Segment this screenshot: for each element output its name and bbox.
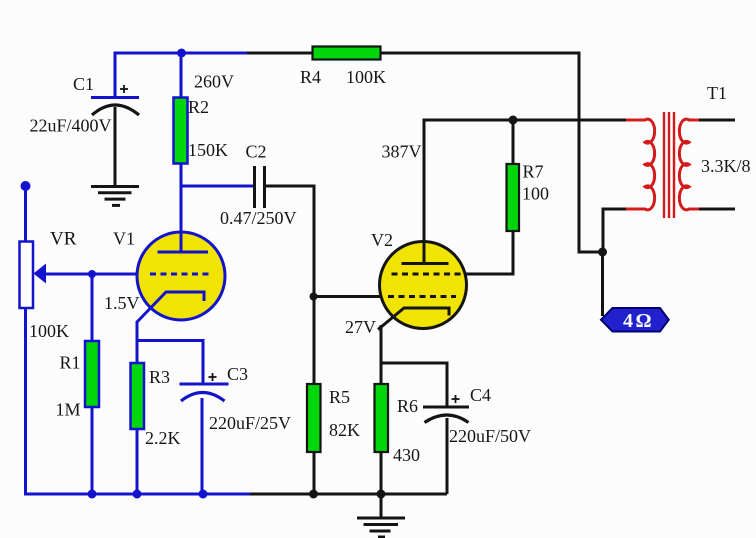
label C3 — [227, 364, 248, 384]
speaker badge hexagon — [601, 308, 669, 332]
svg-text:3.3K/8: 3.3K/8 — [701, 156, 751, 176]
node junction dot grid/R1 — [88, 270, 96, 278]
wire junction to speaker — [601, 252, 604, 316]
label 150K — [188, 140, 228, 160]
V2 plate lead and wire to transformer — [424, 120, 626, 263]
wire cathode branch to C4 — [381, 363, 447, 408]
svg-text:100K: 100K — [29, 321, 69, 341]
svg-text:C1: C1 — [73, 74, 94, 94]
node dot R3/bus — [133, 490, 142, 499]
ground below C1 — [91, 187, 139, 206]
capacitor C4 bottom plate arc — [425, 415, 469, 423]
label V2 — [371, 230, 393, 250]
wire top B+ blue segment — [115, 53, 249, 96]
bottom bus blue segment — [24, 493, 252, 496]
V1 plate — [158, 251, 209, 254]
svg-text:VR: VR — [50, 229, 77, 250]
wire wiper to V1 grid — [44, 273, 139, 276]
resistor R1 — [85, 341, 99, 407]
svg-text:R3: R3 — [149, 367, 170, 387]
capacitor C3 plus sign — [209, 373, 217, 381]
V2 cathode — [378, 308, 449, 330]
wire cathode branch to C3 — [137, 341, 203, 386]
wire R5 column — [313, 297, 316, 495]
label 0.47/250V — [220, 208, 297, 228]
svg-text:R7: R7 — [523, 162, 544, 182]
resistor R2 — [174, 98, 188, 164]
label 100K of VR — [29, 321, 69, 341]
wire primary bottom to junction — [603, 209, 626, 252]
wire R3 bottom — [136, 428, 139, 494]
label C2 — [246, 142, 267, 162]
wire secondary top — [699, 119, 735, 122]
svg-text:27V: 27V — [345, 317, 376, 337]
wire C4 to bus — [446, 418, 449, 494]
label 2.2K — [145, 428, 181, 448]
label 220uF/25V — [209, 413, 291, 433]
label 220uF/50V — [449, 426, 531, 446]
wire junction to V2 grid1 — [314, 295, 384, 298]
wire R7 top — [512, 120, 515, 165]
V2 control grid dashed — [388, 295, 456, 298]
resistor R6 — [375, 384, 389, 452]
ground below R6 — [357, 494, 405, 537]
svg-text:T1: T1 — [707, 83, 727, 103]
label 22uF/400V — [30, 116, 112, 136]
svg-text:R4: R4 — [300, 67, 321, 87]
svg-text:220uF/25V: 220uF/25V — [209, 413, 291, 433]
svg-text:22uF/400V: 22uF/400V — [30, 116, 112, 136]
label R3 — [149, 367, 170, 387]
capacitor C3 top plate — [180, 383, 229, 386]
wire R1 column — [91, 274, 94, 494]
node junction dot top (R2/C1) — [177, 49, 186, 58]
wire R2 column — [180, 53, 183, 253]
label R4 — [300, 67, 321, 87]
wire screen grid to R7 — [465, 230, 513, 274]
wire VR top — [24, 186, 27, 242]
svg-text:2.2K: 2.2K — [145, 428, 181, 448]
svg-text:82K: 82K — [329, 420, 360, 440]
V2 screen grid dashed — [392, 273, 462, 276]
wire VR bottom — [24, 307, 27, 496]
capacitor C3 bottom plate arc — [181, 393, 225, 402]
label C1 — [73, 74, 94, 94]
svg-text:R1: R1 — [60, 353, 81, 373]
svg-text:100K: 100K — [346, 67, 386, 87]
svg-text:1M: 1M — [56, 400, 81, 420]
svg-text:C3: C3 — [227, 364, 248, 384]
label 27V — [345, 317, 376, 337]
label R6 — [397, 396, 418, 416]
svg-text:220uF/50V: 220uF/50V — [449, 426, 531, 446]
svg-text:C2: C2 — [246, 142, 267, 162]
bottom bus black segment — [250, 493, 447, 496]
svg-text:150K: 150K — [188, 140, 228, 160]
svg-text:4Ω: 4Ω — [623, 310, 654, 332]
V1 cathode — [137, 292, 204, 322]
capacitor C1 bottom plate arc — [92, 105, 139, 115]
potentiometer VR body — [20, 242, 34, 309]
label R7 — [523, 162, 544, 182]
svg-text:R6: R6 — [397, 396, 418, 416]
transformer T1 primary winding — [626, 119, 655, 210]
label T1 — [707, 83, 727, 103]
wire R6 column — [380, 363, 383, 494]
potentiometer VR wiper arrow — [34, 264, 47, 284]
transformer T1 core — [664, 112, 674, 218]
capacitor C1 top plate — [91, 96, 139, 99]
node junction dot speaker — [598, 248, 607, 257]
V1 grid dashed — [150, 273, 213, 276]
resistor R3 — [131, 363, 145, 429]
label R5 — [329, 387, 350, 407]
wire R2 bottom to C2 — [181, 185, 253, 188]
svg-text:V2: V2 — [371, 230, 393, 250]
transformer T1 secondary winding — [679, 119, 700, 210]
potentiometer VR input terminal dot — [21, 181, 31, 191]
node dot R6/bus ground — [377, 490, 386, 499]
V2 plate — [402, 262, 449, 265]
svg-text:1.5V: 1.5V — [104, 293, 140, 313]
label VR — [50, 229, 77, 250]
label 260V — [194, 72, 234, 92]
wire C1 to ground — [114, 107, 117, 186]
wire C2 to V2 grid column — [266, 186, 314, 298]
label 387V — [382, 142, 422, 162]
capacitor C2 plates — [255, 166, 265, 208]
label R2 — [188, 97, 209, 117]
capacitor C1 plus sign — [120, 85, 128, 93]
label V1 — [113, 229, 135, 249]
label 100K of R4 — [346, 67, 386, 87]
svg-text:R2: R2 — [188, 97, 209, 117]
label 430 — [393, 445, 420, 465]
label 82K — [329, 420, 360, 440]
capacitor C4 plus sign — [452, 395, 460, 403]
label 1M — [56, 400, 81, 420]
pentode V2 envelope — [380, 242, 467, 329]
node junction dot R7 top — [509, 116, 518, 125]
node dot R1/bus — [88, 490, 97, 499]
wire C3 to bus — [201, 398, 204, 494]
wire V1 cathode to R3 — [136, 321, 139, 364]
label 3.3K/8 — [701, 156, 751, 176]
capacitor C4 top plate — [423, 406, 469, 409]
svg-text:C4: C4 — [470, 385, 491, 405]
resistor R5 — [307, 384, 321, 452]
svg-text:100: 100 — [522, 184, 549, 204]
node dot R5/bus — [309, 490, 318, 499]
svg-text:260V: 260V — [194, 72, 234, 92]
triode V1 envelope — [137, 232, 225, 320]
resistor R7 — [507, 164, 520, 231]
svg-text:430: 430 — [393, 445, 420, 465]
svg-text:R5: R5 — [329, 387, 350, 407]
label 1.5V — [104, 293, 140, 313]
wire V2 cathode to R6 — [380, 325, 383, 364]
svg-text:0.47/250V: 0.47/250V — [220, 208, 297, 228]
node dot C3/bus — [199, 490, 208, 499]
wire top B+ black segment to right corner and down — [247, 53, 603, 252]
node junction dot C2/R5/V2 grid — [310, 293, 318, 301]
label C4 — [470, 385, 491, 405]
V1 plate lead — [180, 228, 183, 253]
label R1 — [60, 353, 81, 373]
label 100 — [522, 184, 549, 204]
svg-text:V1: V1 — [113, 229, 135, 249]
wire secondary bottom — [699, 208, 735, 211]
resistor R4 — [313, 47, 381, 60]
svg-text:387V: 387V — [382, 142, 422, 162]
